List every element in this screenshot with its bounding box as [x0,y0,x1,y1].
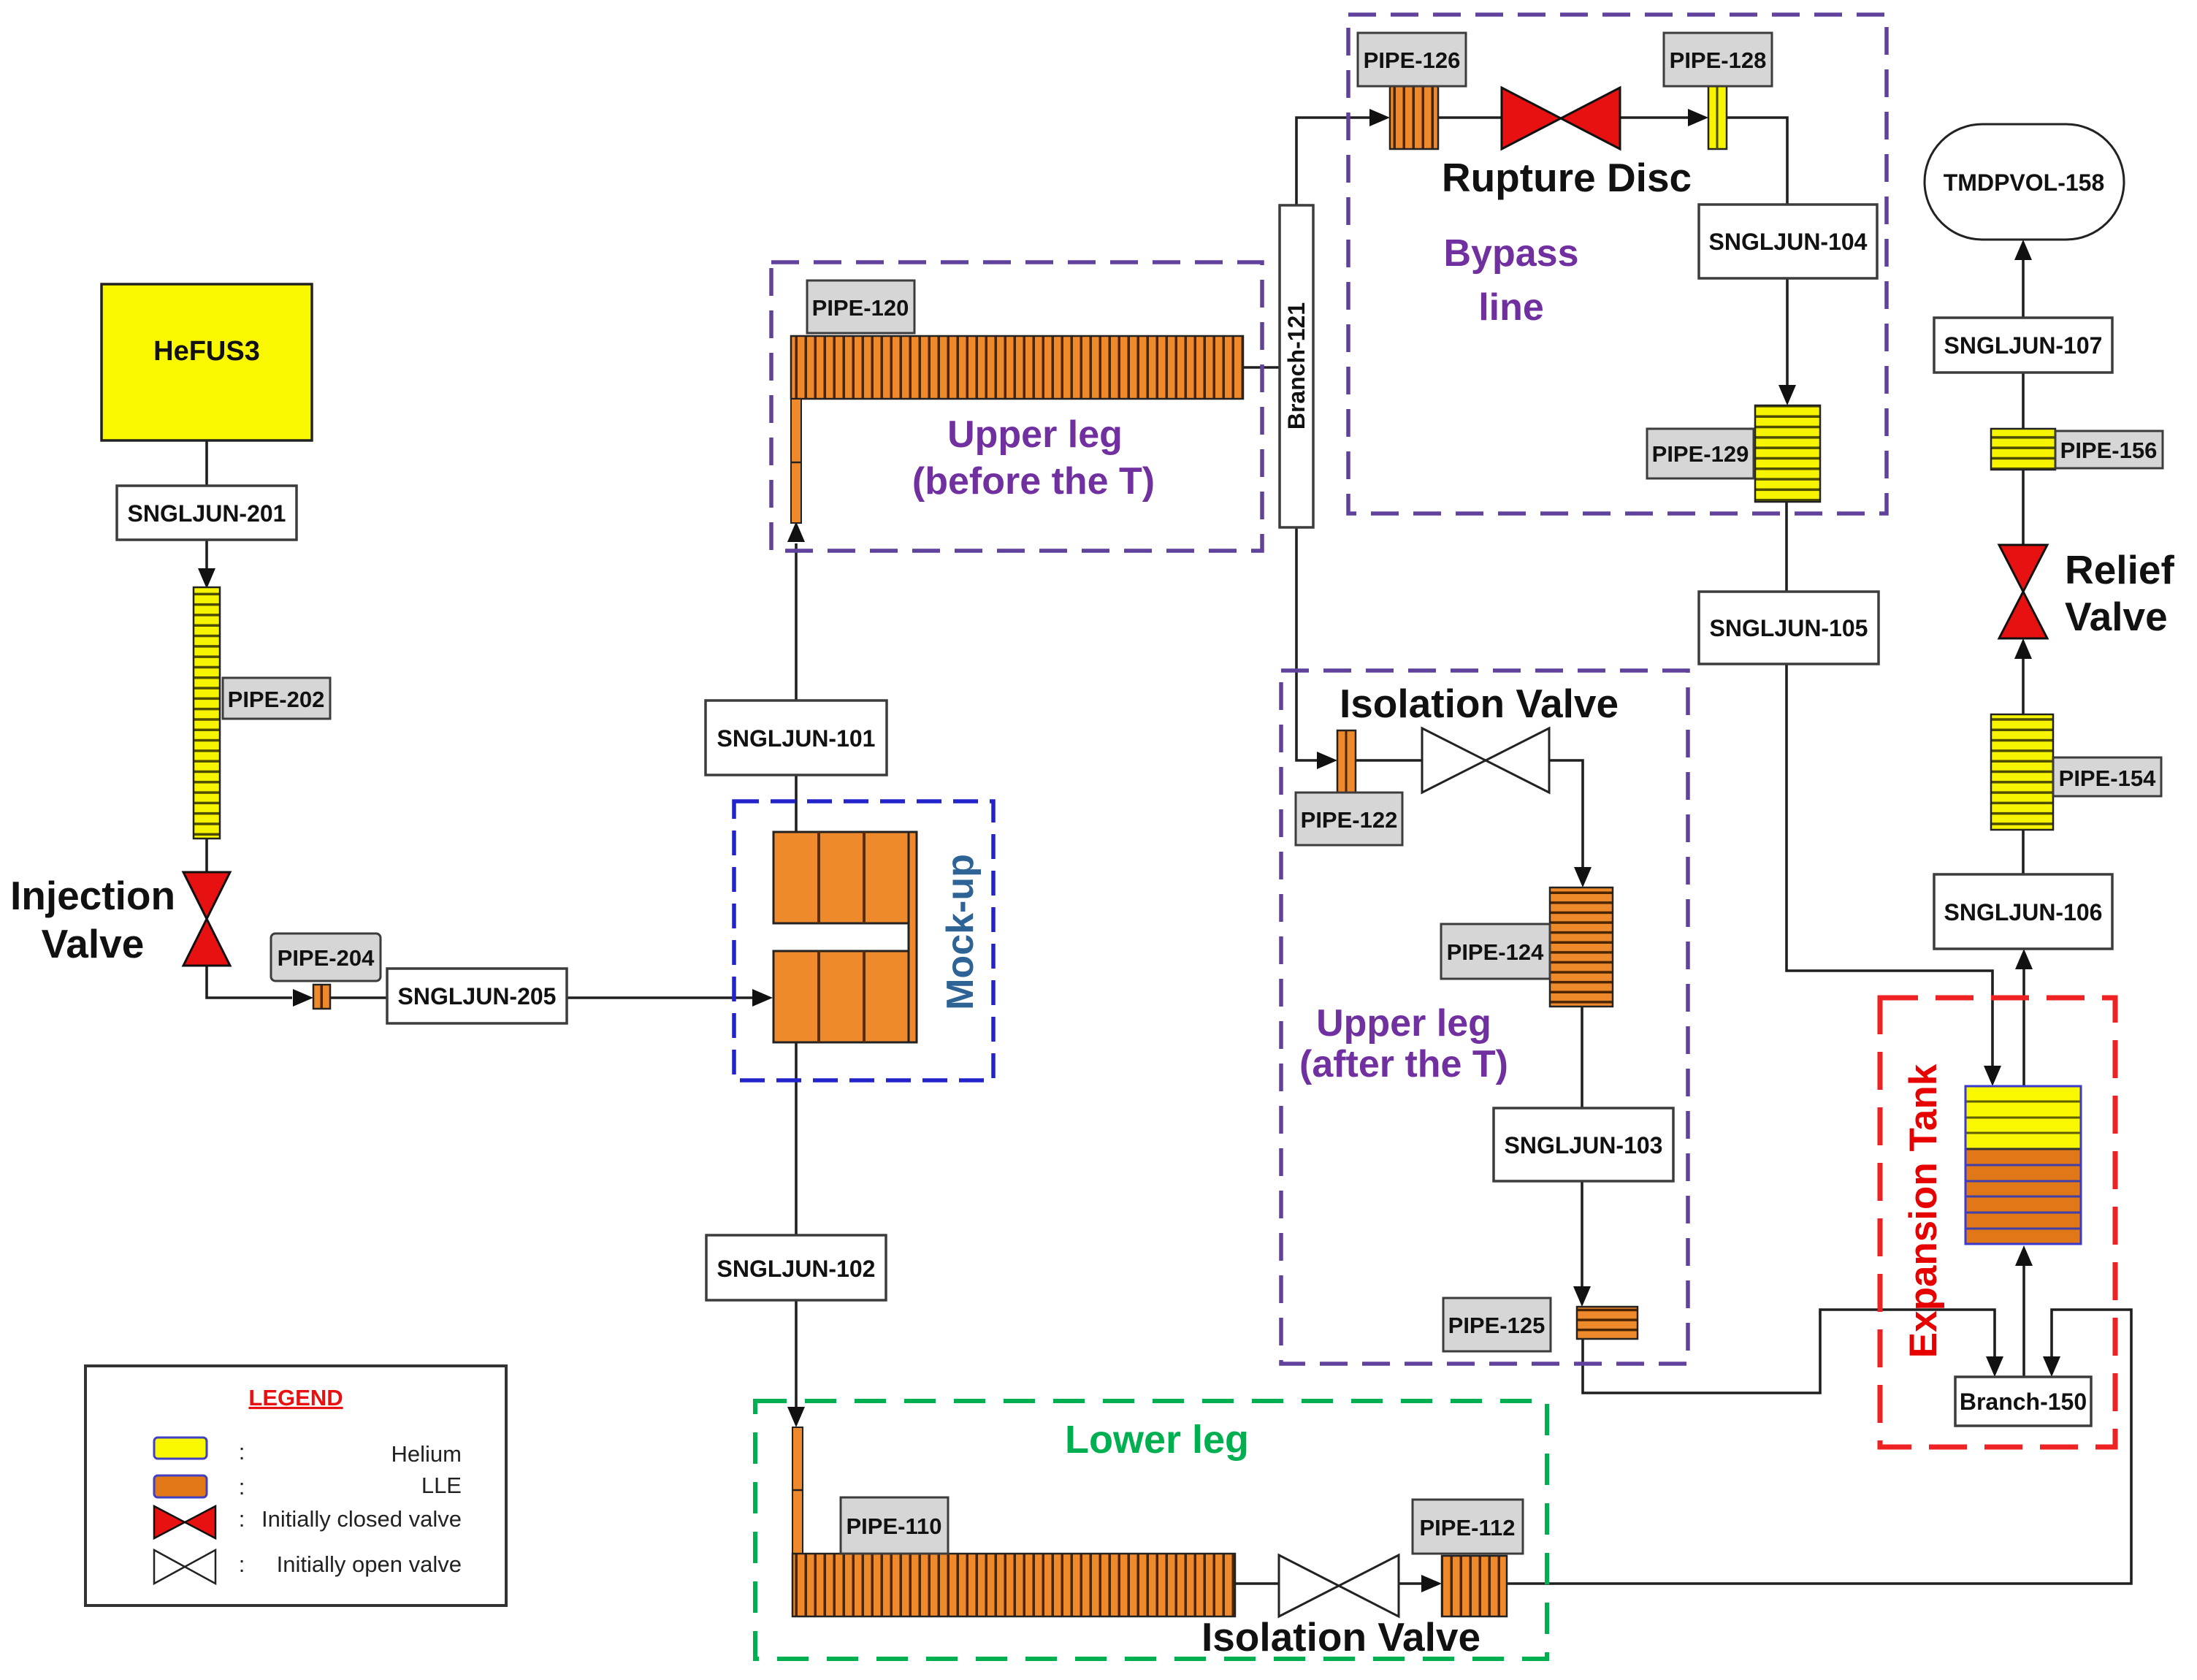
arrowhead into TMDPVOL-158 [2014,240,2032,260]
valve Rupture Disc (initially closed) [1502,88,1620,149]
svg-text:SNGLJUN-107: SNGLJUN-107 [1944,332,2103,359]
svg-text::: : [239,1474,245,1500]
svg-text::: : [239,1506,245,1532]
svg-text:SNGLJUN-104: SNGLJUN-104 [1709,229,1868,255]
arrowhead into Mock-up [752,989,773,1007]
wire SNGLJUN-201 to PIPE-202 [205,540,208,577]
junction SNGLJUN-106 [1934,874,2112,949]
svg-text:SNGLJUN-103: SNGLJUN-103 [1505,1132,1663,1158]
pipe PIPE-120 (horizontal run) [791,336,1243,399]
region label Upper leg (before the T) [912,413,1155,503]
wire Branch-121 to PIPE-122 [1296,527,1317,760]
svg-text:PIPE-128: PIPE-128 [1670,47,1767,73]
svg-text:SNGLJUN-106: SNGLJUN-106 [1944,899,2103,925]
pipe PIPE-124 [1550,887,1613,1007]
big label Relief Valve [2065,547,2174,639]
svg-text:Initially open valve: Initially open valve [277,1551,462,1577]
valve Injection Valve (initially closed) [183,872,230,966]
arrowhead into PIPE-125 [1573,1286,1591,1307]
pipe PIPE-126 [1390,86,1438,149]
arrowhead into PIPE-204 [293,989,313,1007]
svg-text:Mock-up: Mock-up [939,854,982,1010]
arrowhead into PIPE-129 [1778,385,1796,405]
svg-text:(after the T): (after the T) [1299,1043,1508,1085]
region label Bypass line [1444,232,1579,329]
wire SNGLJUN-104 to PIPE-129 [1786,278,1789,386]
label PIPE-129 [1647,429,1754,478]
wire Isolation Valve upper to PIPE-124 [1549,760,1583,867]
svg-text:Valve: Valve [42,921,145,966]
pipe PIPE-110 riser [792,1427,803,1554]
label PIPE-124 [1441,924,1550,979]
legend swatch Helium [154,1437,207,1459]
pipe PIPE-120 riser [791,399,801,523]
wire SNGLJUN-101 to PIPE-120 riser [795,543,798,700]
arrowhead into Expansion Tank top [1984,1066,2001,1086]
wire PIPE-129 through SNGLJUN-105 to Expansion Tank top [1785,502,1788,592]
arrowhead into PIPE-124 [1574,867,1592,887]
big label Injection Valve [10,873,175,966]
label PIPE-154 [2053,757,2161,796]
pipe PIPE-204 [313,985,330,1009]
svg-text:PIPE-122: PIPE-122 [1301,807,1398,833]
svg-text:Helium: Helium [391,1441,462,1467]
region box Mock-up [734,801,993,1080]
label PIPE-128 [1664,33,1772,86]
svg-text:Upper leg: Upper leg [1316,1002,1491,1045]
svg-text:PIPE-110: PIPE-110 [847,1513,942,1539]
wire PIPE-202 to Injection Valve [205,839,208,874]
label PIPE-125 [1443,1298,1551,1351]
svg-text:PIPE-129: PIPE-129 [1652,441,1749,467]
svg-text:SNGLJUN-102: SNGLJUN-102 [717,1256,876,1282]
wire Mock-up to SNGLJUN-102 [795,1042,798,1235]
wire PIPE-154 to Relief Valve [2022,657,2025,714]
region box Bypass line [1348,15,1887,513]
arrowhead into PIPE-122 [1317,752,1337,769]
svg-text:PIPE-202: PIPE-202 [228,687,325,712]
wire Injection Valve to PIPE-204 [207,964,292,998]
junction SNGLJUN-201 [117,486,297,540]
svg-text:Branch-121: Branch-121 [1283,302,1310,429]
arrowhead into PIPE-202 [198,568,215,589]
wire SNGLJUN-102 to PIPE-110 riser [795,1300,798,1408]
pipe PIPE-156 [1991,429,2055,470]
region box Expansion Tank [1880,998,2115,1447]
wire Branch-121 to PIPE-126 [1296,118,1369,205]
arrowhead into PIPE-120 riser [787,522,805,542]
junction SNGLJUN-104 [1699,205,1877,278]
wire Isolation Valve lower to PIPE-112 [1399,1582,1421,1585]
svg-text:PIPE-126: PIPE-126 [1364,47,1461,73]
wire Expansion Tank top to SNGLJUN-106 [2022,968,2025,1086]
wire PIPE-128 to SNGLJUN-104 [1727,118,1787,205]
wire HeFUS3 to SNGLJUN-201 [205,440,208,486]
svg-text:Isolation Valve: Isolation Valve [1340,681,1619,726]
wire SNGLJUN-106 to PIPE-154 [2022,830,2025,874]
valve Isolation Valve upper (initially open) [1422,728,1549,793]
svg-text::: : [239,1439,245,1465]
pipe PIPE-122 [1337,730,1356,799]
svg-text:PIPE-156: PIPE-156 [2060,438,2158,463]
label PIPE-202 [223,678,330,719]
junction SNGLJUN-103 [1494,1108,1673,1181]
svg-text:Relief: Relief [2065,547,2174,592]
wire Branch-150 to Expansion Tank bottom [2022,1264,2025,1377]
svg-text:Valve: Valve [2065,594,2168,639]
component Mock-up heated channel [773,832,917,1042]
region box Lower leg [755,1401,1547,1659]
svg-text:PIPE-112: PIPE-112 [1420,1515,1516,1540]
wire PIPE-204 to SNGLJUN-205 [330,996,387,999]
svg-text:line: line [1478,286,1544,329]
branch Branch-150 [1955,1377,2091,1426]
legend box [85,1366,506,1605]
wire SNGLJUN-101 to Mock-up [795,775,798,832]
source HeFUS3 [102,284,312,440]
component Expansion Tank vessel [1965,1086,2081,1244]
svg-text:PIPE-124: PIPE-124 [1447,939,1544,965]
arrowhead into PIPE-128 [1688,109,1708,126]
wire SNGLJUN-103 to PIPE-125 [1581,1181,1583,1286]
arrowhead into PIPE-110 riser [787,1407,805,1427]
pipe PIPE-125 [1577,1307,1638,1339]
volume TMDPVOL-158 [1925,124,2124,240]
svg-text:Isolation Valve: Isolation Valve [1201,1614,1480,1660]
wire PIPE-125 to Branch-150 left drop [1583,1310,1995,1393]
label PIPE-120 [807,280,914,333]
pipe PIPE-202 [194,587,220,839]
wire Relief Valve to PIPE-156 [2022,470,2025,545]
pipe PIPE-154 [1991,714,2053,830]
svg-text::: : [239,1551,245,1577]
label PIPE-156 [2055,431,2163,468]
arrowhead into Branch-150 right [2043,1356,2060,1377]
legend separators and captions [239,1439,245,1577]
wire PIPE-126 to Rupture Disc valve [1438,116,1502,119]
svg-text:PIPE-154: PIPE-154 [2059,765,2156,791]
label PIPE-112 [1413,1500,1523,1554]
svg-text:Initially closed valve: Initially closed valve [261,1506,462,1532]
label PIPE-122 [1296,793,1402,845]
wire Rupture Disc valve to PIPE-128 [1620,116,1689,119]
wire PIPE-110 to Isolation Valve lower [1235,1582,1279,1585]
svg-text:PIPE-125: PIPE-125 [1448,1313,1545,1338]
legend symbol initially open valve [154,1550,215,1584]
label PIPE-204 [271,933,381,981]
svg-text:TMDPVOL-158: TMDPVOL-158 [1944,169,2104,196]
region box Upper leg (after the T) [1281,671,1688,1364]
pipe PIPE-110 (horizontal run) [792,1554,1235,1616]
svg-text:SNGLJUN-105: SNGLJUN-105 [1710,615,1868,641]
arrowhead into SNGLJUN-106 [2015,949,2033,969]
svg-text:SNGLJUN-205: SNGLJUN-205 [398,983,557,1009]
wire SNGLJUN-107 to TMDPVOL-158 [2022,259,2025,318]
svg-text:Rupture Disc: Rupture Disc [1442,155,1692,200]
wire PIPE-156 to SNGLJUN-107 [2022,373,2025,429]
svg-text:PIPE-120: PIPE-120 [812,295,909,321]
wire PIPE-122 to Isolation Valve upper [1356,759,1422,762]
svg-text:Lower leg: Lower leg [1065,1418,1249,1462]
label PIPE-126 [1358,33,1466,86]
wire SNGLJUN-205 to Mock-up [567,996,752,999]
wire PIPE-124 to SNGLJUN-103 [1581,1007,1583,1108]
pipe PIPE-112 [1442,1556,1507,1616]
region label Upper leg (after the T) [1299,1002,1508,1085]
legend swatch LLE [154,1475,207,1497]
junction SNGLJUN-205 [387,969,567,1023]
arrowhead into Relief Valve [2014,638,2032,659]
arrowhead into Expansion Tank bottom [2015,1245,2033,1266]
svg-text:LLE: LLE [421,1473,462,1498]
svg-text:SNGLJUN-101: SNGLJUN-101 [717,725,876,752]
svg-text:Injection: Injection [10,873,175,918]
wire PIPE-112 to Branch-150 right drop [1507,1310,2131,1584]
svg-text:Expansion Tank: Expansion Tank [1902,1064,1945,1358]
pipe PIPE-129 [1755,405,1820,502]
svg-text:LEGEND: LEGEND [248,1385,343,1410]
region box Upper leg (before the T) [771,262,1262,551]
junction SNGLJUN-102 [706,1235,886,1300]
svg-text:Upper leg: Upper leg [947,413,1123,456]
svg-text:(before the T): (before the T) [912,460,1155,503]
wire PIPE-120 to Branch-121 [1243,366,1280,369]
arrowhead into PIPE-126 [1369,109,1390,126]
svg-text:HeFUS3: HeFUS3 [153,336,260,367]
junction SNGLJUN-101 [706,700,887,775]
valve Isolation Valve lower (initially open) [1279,1555,1399,1616]
branch Branch-121 [1280,205,1313,527]
legend symbol initially closed valve [154,1506,215,1538]
junction SNGLJUN-105 [1699,592,1879,664]
svg-text:PIPE-204: PIPE-204 [278,945,375,971]
junction SNGLJUN-107 [1934,318,2112,373]
arrowhead into PIPE-112 [1421,1575,1442,1592]
pipe PIPE-128 [1708,85,1727,149]
svg-text:SNGLJUN-201: SNGLJUN-201 [128,500,286,527]
valve Relief Valve (initially closed) [1999,545,2047,638]
label PIPE-110 [841,1497,948,1554]
svg-text:Branch-150: Branch-150 [1960,1389,2087,1415]
arrowhead into Branch-150 left [1986,1356,2003,1377]
svg-text:Bypass: Bypass [1444,232,1579,275]
